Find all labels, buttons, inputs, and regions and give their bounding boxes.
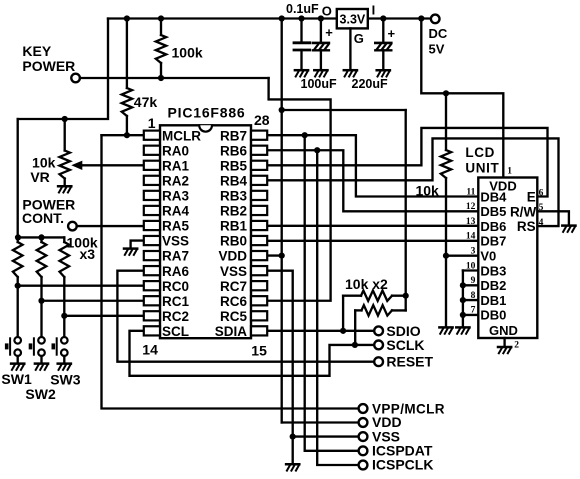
svg-text:220uF: 220uF xyxy=(352,77,388,91)
svg-text:DB0: DB0 xyxy=(480,308,506,323)
svg-text:100uF: 100uF xyxy=(301,77,337,91)
svg-text:11: 11 xyxy=(466,187,475,197)
svg-text:RB3: RB3 xyxy=(220,189,247,204)
svg-text:1: 1 xyxy=(148,115,156,131)
svg-text:RC2: RC2 xyxy=(162,309,189,324)
svg-text:13: 13 xyxy=(466,217,476,227)
svg-text:14: 14 xyxy=(466,232,476,242)
svg-text:DB7: DB7 xyxy=(480,234,506,249)
svg-text:14: 14 xyxy=(142,342,158,358)
svg-text:DB6: DB6 xyxy=(480,219,506,234)
svg-text:VSS: VSS xyxy=(220,264,247,279)
svg-text:DB3: DB3 xyxy=(480,263,506,278)
svg-text:RC6: RC6 xyxy=(220,294,247,309)
svg-text:VR: VR xyxy=(30,169,49,185)
svg-text:DB1: DB1 xyxy=(480,293,506,308)
svg-text:SDIO: SDIO xyxy=(386,323,420,339)
svg-text:UNIT: UNIT xyxy=(465,160,499,175)
svg-text:10: 10 xyxy=(466,261,476,271)
svg-text:1: 1 xyxy=(507,167,512,177)
svg-text:POWER: POWER xyxy=(22,58,75,74)
svg-text:RB5: RB5 xyxy=(220,158,247,173)
svg-text:9: 9 xyxy=(471,276,476,286)
svg-text:15: 15 xyxy=(251,343,267,359)
svg-text:RB6: RB6 xyxy=(220,143,247,158)
svg-text:SW3: SW3 xyxy=(50,372,81,388)
svg-text:2: 2 xyxy=(514,340,519,350)
svg-text:28: 28 xyxy=(254,112,270,128)
svg-text:RC5: RC5 xyxy=(220,309,247,324)
svg-text:I: I xyxy=(372,2,376,17)
svg-text:RC0: RC0 xyxy=(162,279,189,294)
svg-text:4: 4 xyxy=(539,218,544,228)
svg-text:RESET: RESET xyxy=(386,353,433,369)
svg-text:DB5: DB5 xyxy=(480,204,506,219)
svg-text:12: 12 xyxy=(466,202,476,212)
svg-text:VPP/MCLR: VPP/MCLR xyxy=(372,401,445,416)
svg-text:RB1: RB1 xyxy=(220,219,247,234)
svg-text:6: 6 xyxy=(539,188,544,198)
svg-text:V0: V0 xyxy=(480,249,496,264)
svg-text:VSS: VSS xyxy=(162,234,189,249)
svg-text:SW1: SW1 xyxy=(1,371,32,387)
svg-text:G: G xyxy=(354,31,364,46)
svg-text:10k: 10k xyxy=(415,182,439,198)
svg-text:RB4: RB4 xyxy=(220,173,247,188)
svg-text:+: + xyxy=(325,25,333,40)
svg-text:SW2: SW2 xyxy=(25,386,56,402)
svg-text:RA7: RA7 xyxy=(162,249,189,264)
svg-text:5V: 5V xyxy=(429,42,445,57)
svg-text:RA6: RA6 xyxy=(162,264,189,279)
svg-text:SCLK: SCLK xyxy=(386,337,424,353)
svg-text:RA0: RA0 xyxy=(162,143,189,158)
svg-text:RA2: RA2 xyxy=(162,173,189,188)
svg-text:3.3V: 3.3V xyxy=(340,13,366,27)
svg-text:DC: DC xyxy=(429,26,448,41)
svg-text:RB7: RB7 xyxy=(220,128,247,143)
svg-text:LCD: LCD xyxy=(465,145,495,160)
svg-text:RA5: RA5 xyxy=(162,219,189,234)
svg-text:R/W: R/W xyxy=(510,204,537,219)
svg-text:DB2: DB2 xyxy=(480,278,506,293)
svg-text:PIC16F886: PIC16F886 xyxy=(168,105,246,121)
svg-text:KEY: KEY xyxy=(22,43,51,59)
svg-text:E: E xyxy=(527,189,536,204)
svg-text:RA1: RA1 xyxy=(162,158,189,173)
svg-text:8: 8 xyxy=(471,291,476,301)
svg-text:MCLR: MCLR xyxy=(162,128,201,143)
svg-text:RC1: RC1 xyxy=(162,294,189,309)
svg-text:+: + xyxy=(388,26,396,41)
svg-text:RA3: RA3 xyxy=(162,189,189,204)
svg-text:RB0: RB0 xyxy=(220,234,247,249)
svg-text:47k: 47k xyxy=(134,94,158,110)
svg-text:CONT.: CONT. xyxy=(22,210,64,226)
svg-text:GND: GND xyxy=(489,323,518,338)
svg-text:VDD: VDD xyxy=(218,249,247,264)
svg-text:SDIA: SDIA xyxy=(215,324,248,339)
svg-text:3: 3 xyxy=(471,247,476,257)
svg-text:RA4: RA4 xyxy=(162,204,189,219)
svg-text:DB4: DB4 xyxy=(480,189,507,204)
svg-text:5: 5 xyxy=(539,203,544,213)
svg-text:RB2: RB2 xyxy=(220,204,247,219)
svg-text:10k x2: 10k x2 xyxy=(345,276,388,292)
svg-text:RS: RS xyxy=(517,219,536,234)
svg-text:RC7: RC7 xyxy=(220,279,247,294)
svg-text:0.1uF: 0.1uF xyxy=(286,2,319,16)
svg-text:ICSPCLK: ICSPCLK xyxy=(372,457,433,473)
svg-text:O: O xyxy=(322,4,332,19)
svg-text:SCL: SCL xyxy=(162,324,189,339)
svg-text:7: 7 xyxy=(471,306,476,316)
svg-text:x3: x3 xyxy=(80,246,96,262)
svg-text:100k: 100k xyxy=(172,45,203,61)
